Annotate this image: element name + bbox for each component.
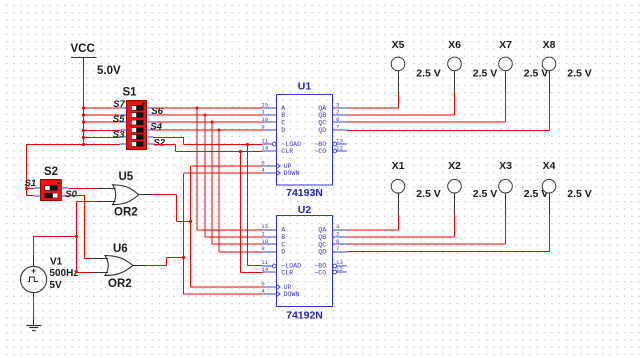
- svg-text:S0: S0: [65, 189, 77, 200]
- wire V1 negative to ground: [33, 298, 35, 318]
- svg-text:QA: QA: [318, 105, 326, 112]
- svg-text:13: 13: [336, 138, 343, 145]
- svg-text:1: 1: [261, 108, 265, 115]
- label X3 voltage 2.5 V: [524, 188, 549, 200]
- svg-text:A: A: [281, 226, 285, 233]
- svg-text:X6: X6: [448, 39, 461, 51]
- label X5: [392, 39, 405, 51]
- wire VCC vertical bus: [83, 66, 85, 145]
- svg-text:OR2: OR2: [108, 278, 132, 290]
- wire net S7 S1 to U1/U2 data input A: [154, 107, 263, 231]
- S2 pin stubs: [34, 188, 69, 196]
- svg-text:CLR: CLR: [281, 269, 293, 276]
- wire clock net V1 to U5/U6 inputs: [34, 202, 99, 274]
- wire net S2 to U1/U2 CLR: [154, 145, 263, 273]
- label U5 refdes: [119, 171, 134, 183]
- svg-text:6: 6: [336, 116, 340, 123]
- svg-text:5: 5: [261, 280, 265, 287]
- label X1 voltage 2.5 V: [416, 188, 441, 200]
- U1 left pins A B C D ~LOAD CLR UP DOWN: [261, 101, 301, 176]
- wire net S4 S1 to U1/U2 data input D: [154, 129, 263, 253]
- svg-text:~BO: ~BO: [314, 262, 326, 269]
- label X7: [499, 39, 512, 51]
- svg-text:QC: QC: [318, 241, 326, 248]
- counter U2 body: [277, 216, 333, 307]
- wire net S1 to U5 input: [68, 188, 98, 190]
- svg-text:QB: QB: [318, 112, 326, 119]
- wire U1 QD to probe X8: [347, 93, 550, 131]
- probe X5: [391, 57, 405, 93]
- svg-text:11: 11: [261, 259, 268, 266]
- svg-text:5: 5: [261, 159, 265, 166]
- label U6 refdes: [113, 243, 128, 255]
- or-gate U5: [98, 185, 153, 205]
- svg-text:~CO: ~CO: [314, 269, 326, 276]
- probe X7: [499, 57, 513, 93]
- label X5 voltage 2.5 V: [416, 67, 441, 79]
- wire S2 switch supply vertical: [27, 144, 34, 196]
- label X7 voltage 2.5 V: [524, 67, 549, 79]
- label X4 voltage 2.5 V: [567, 188, 592, 200]
- svg-text:500Hz: 500Hz: [49, 268, 78, 279]
- svg-text:S5: S5: [113, 114, 125, 125]
- wire U1 QC to probe X7: [347, 93, 506, 122]
- label V1 value 5V: [49, 280, 62, 291]
- svg-text:OR2: OR2: [114, 206, 138, 218]
- source V1 (500Hz 5V square wave): [20, 254, 46, 297]
- wire U1 QA to probe X5: [347, 93, 399, 108]
- svg-text:10: 10: [261, 238, 268, 245]
- svg-text:74193N: 74193N: [286, 187, 323, 199]
- svg-text:12: 12: [336, 145, 343, 152]
- label X2 voltage 2.5 V: [473, 188, 498, 200]
- wire VCC taps to S1 rows 4-5: [84, 131, 120, 138]
- wire VCC taps to S1 rows 1-3: [84, 108, 120, 122]
- U2 right pins QA QB QC QD ~BO ~CO: [314, 223, 347, 276]
- svg-text:+: +: [31, 266, 36, 276]
- wire U2 QA to probe X1: [347, 215, 399, 230]
- svg-text:4: 4: [261, 166, 265, 173]
- svg-text:C: C: [281, 119, 285, 126]
- U1 right pins QA QB QC QD ~BO ~CO: [314, 102, 347, 155]
- node S3 label: [113, 130, 125, 141]
- svg-text:~BO: ~BO: [314, 141, 326, 148]
- probe X4: [542, 179, 556, 215]
- label V1 value 500Hz: [49, 268, 78, 279]
- svg-text:2.5 V: 2.5 V: [416, 188, 441, 200]
- svg-text:UP: UP: [284, 284, 292, 291]
- node S5 label: [113, 114, 125, 125]
- svg-text:7: 7: [336, 245, 340, 252]
- probe X6: [448, 57, 462, 93]
- svg-text:2: 2: [336, 109, 340, 116]
- svg-text:X3: X3: [499, 160, 512, 172]
- svg-text:X8: X8: [543, 39, 556, 51]
- U2 left pins A B C D ~LOAD CLR UP DOWN: [261, 223, 301, 298]
- svg-text:2.5 V: 2.5 V: [567, 188, 592, 200]
- node S1 label: [25, 178, 37, 189]
- svg-text:9: 9: [261, 123, 265, 130]
- label X8: [543, 39, 556, 51]
- svg-text:U1: U1: [298, 81, 312, 93]
- svg-text:A: A: [281, 105, 285, 112]
- svg-text:DOWN: DOWN: [284, 170, 300, 177]
- svg-text:B: B: [281, 234, 285, 241]
- svg-text:QA: QA: [318, 226, 326, 233]
- svg-text:14: 14: [261, 266, 268, 273]
- probe X1: [391, 179, 405, 215]
- svg-text:6: 6: [336, 238, 340, 245]
- svg-text:2.5 V: 2.5 V: [473, 188, 498, 200]
- svg-text:UP: UP: [284, 163, 292, 170]
- svg-text:X7: X7: [499, 39, 512, 51]
- svg-text:X5: X5: [392, 39, 405, 51]
- svg-text:U6: U6: [113, 243, 128, 255]
- label X3: [499, 160, 512, 172]
- wire U2 QD to probe X4: [347, 215, 550, 251]
- svg-text:S1: S1: [123, 87, 138, 99]
- svg-text:DOWN: DOWN: [284, 291, 300, 298]
- svg-text:9: 9: [261, 245, 265, 252]
- S1 pin stubs: [120, 108, 154, 144]
- node S2 label: [153, 137, 165, 148]
- svg-text:7: 7: [336, 124, 340, 131]
- svg-text:X2: X2: [448, 160, 461, 172]
- counter U1 body: [277, 95, 333, 186]
- label X4: [543, 160, 556, 172]
- label U6 type OR2: [108, 278, 132, 290]
- svg-text:3: 3: [336, 102, 340, 109]
- label S2 refdes: [44, 166, 58, 178]
- label X6 voltage 2.5 V: [473, 67, 498, 79]
- svg-text:74192N: 74192N: [286, 310, 323, 322]
- node S0 label: [65, 189, 77, 200]
- switch S2 (2-position DIP pack): [41, 180, 62, 201]
- label U2 refdes: [298, 204, 312, 216]
- svg-text:CLR: CLR: [281, 148, 293, 155]
- svg-text:QC: QC: [318, 119, 326, 126]
- node S4 label: [150, 121, 162, 132]
- node S6 label: [151, 106, 163, 117]
- svg-text:QD: QD: [318, 248, 326, 255]
- svg-text:15: 15: [261, 223, 268, 230]
- label X2: [448, 160, 461, 172]
- svg-text:15: 15: [261, 101, 268, 108]
- svg-text:D: D: [281, 127, 285, 134]
- label U1 refdes: [298, 81, 312, 93]
- label VCC value 5.0V: [97, 65, 121, 77]
- svg-text:QB: QB: [318, 234, 326, 241]
- svg-text:~LOAD: ~LOAD: [281, 141, 301, 148]
- wire U2 QC to probe X3: [347, 215, 506, 244]
- label X1: [392, 160, 405, 172]
- label U2 value 74192N: [286, 310, 323, 322]
- power symbol VCC: [71, 43, 97, 66]
- svg-text:C: C: [281, 241, 285, 248]
- wire net S5 S1 to U1/U2 data input C: [154, 121, 263, 245]
- wire VCC row6 and to S2 switch: [27, 144, 120, 146]
- svg-text:X1: X1: [392, 160, 405, 172]
- svg-text:11: 11: [261, 137, 268, 144]
- svg-text:2.5 V: 2.5 V: [416, 67, 441, 79]
- svg-text:B: B: [281, 112, 285, 119]
- svg-text:~LOAD: ~LOAD: [281, 262, 301, 269]
- node S7 label: [113, 99, 125, 110]
- svg-text:S4: S4: [150, 121, 162, 132]
- svg-text:3: 3: [336, 223, 340, 230]
- wire U2 QB to probe X2: [347, 215, 455, 237]
- label V1 refdes: [50, 257, 63, 268]
- wire net S6 S1 to U1/U2 data input B: [154, 114, 263, 238]
- svg-text:S2: S2: [44, 166, 58, 178]
- junction dots on VCC bus: [25, 106, 85, 190]
- svg-text:14: 14: [261, 144, 268, 151]
- svg-text:U5: U5: [119, 171, 134, 183]
- ground: [26, 318, 41, 331]
- probe X8: [542, 57, 556, 93]
- svg-text:QD: QD: [318, 127, 326, 134]
- svg-text:12: 12: [336, 266, 343, 273]
- svg-text:V1: V1: [50, 257, 63, 268]
- svg-text:5.0V: 5.0V: [97, 65, 121, 77]
- svg-text:U2: U2: [298, 204, 312, 216]
- svg-text:S2: S2: [153, 137, 165, 148]
- label S1 refdes: [123, 87, 138, 99]
- svg-text:2: 2: [336, 231, 340, 238]
- probe X2: [448, 179, 462, 215]
- or-gate U6: [91, 256, 147, 276]
- wire net S3 to U1/U2 ~LOAD: [154, 137, 263, 266]
- svg-text:S7: S7: [113, 99, 125, 110]
- svg-text:D: D: [281, 248, 285, 255]
- svg-text:S3: S3: [113, 130, 125, 141]
- label X8 voltage 2.5 V: [567, 67, 592, 79]
- svg-text:13: 13: [336, 259, 343, 266]
- svg-text:X4: X4: [543, 160, 556, 172]
- svg-text:2.5 V: 2.5 V: [473, 67, 498, 79]
- label U1 value 74193N: [286, 187, 323, 199]
- wire DOWN net U6 out to U1/U2 DOWN: [147, 173, 263, 295]
- svg-text:2.5 V: 2.5 V: [567, 67, 592, 79]
- svg-text:S1: S1: [25, 178, 37, 189]
- switch S1 (6-position DIP pack): [127, 101, 147, 150]
- svg-text:5V: 5V: [49, 280, 62, 291]
- wire UP net U5 out to U1/U2 UP: [153, 166, 263, 288]
- wire net S0 to U6 input: [68, 196, 91, 260]
- svg-text:4: 4: [261, 287, 265, 294]
- probe X3: [499, 179, 513, 215]
- wire U1 QB to probe X6: [347, 93, 455, 115]
- svg-text:10: 10: [261, 116, 268, 123]
- svg-text:1: 1: [261, 230, 265, 237]
- label U5 type OR2: [114, 206, 138, 218]
- svg-text:~CO: ~CO: [314, 148, 326, 155]
- label X6: [448, 39, 461, 51]
- svg-text:VCC: VCC: [71, 43, 95, 55]
